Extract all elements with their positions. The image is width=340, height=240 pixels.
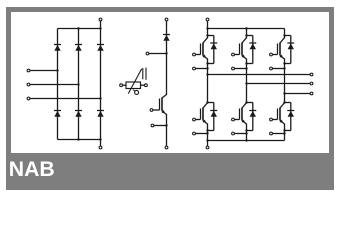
terminal emitter aux of Q3B (270, 132, 286, 135)
wire inverter top rail (208, 27, 285, 29)
terminal DC+ of rectifier (99, 18, 102, 28)
wire phase W leg lower segment (284, 124, 286, 141)
wire phase U leg middle segment (207, 59, 209, 104)
wire diode branch of diode D1T (phase U top freewheel) (206, 34, 214, 64)
wire phase V leg middle segment (246, 59, 248, 104)
terminal chopper collector aux (146, 52, 168, 55)
transistor Q1B (phase U bottom IGBT) (201, 103, 208, 124)
wire diode branch of diode D3B (phase W bottom freewheel) (283, 101, 291, 131)
wire phase V leg lower segment (246, 124, 248, 141)
terminal gate of Q1T (193, 53, 201, 56)
diode D7 (chopper freewheel diode) (163, 35, 170, 41)
diode D3B (phase W bottom freewheel) (287, 111, 294, 117)
diode D1 (rectifier top, leg 1) (54, 45, 61, 51)
diode D2B (phase V bottom freewheel) (249, 111, 256, 117)
terminal thermistor left (120, 84, 126, 87)
terminal AC input L1 (27, 69, 59, 72)
terminal inverter P (+) (206, 18, 209, 30)
diode D3 (rectifier top, leg 3) (97, 45, 104, 51)
terminal emitter aux of Q1B (193, 132, 209, 135)
wire phase U leg upper segment (207, 29, 209, 39)
terminal DC- of rectifier (99, 140, 102, 149)
terminal emitter aux of Q3T (270, 67, 286, 70)
terminal AC input L3 (27, 97, 102, 100)
terminal chopper emitter aux (151, 124, 168, 127)
transistor Q3B (phase W bottom IGBT) (278, 103, 285, 124)
wire rectifier bottom rail (-) (58, 138, 102, 140)
wire diode branch of diode D2B (phase V bottom freewheel) (245, 101, 253, 131)
terminal emitter aux of Q2T (232, 67, 248, 70)
transistor Q3T (phase W top IGBT) (278, 38, 285, 59)
wire rectifier leg 3 (100, 29, 102, 140)
terminal phase output V (245, 82, 313, 85)
diode D3T (phase W top freewheel) (287, 43, 294, 49)
terminal AC input L2 (27, 83, 80, 86)
diode D2T (phase V top freewheel) (249, 43, 256, 49)
terminal gate of Q3T (270, 53, 278, 56)
transistor Q7 (brake chopper IGBT) (160, 95, 167, 115)
wire rectifier leg 2 (78, 29, 80, 140)
wire phase U leg lower segment (207, 124, 209, 141)
terminal emitter aux of Q1T (193, 67, 209, 70)
terminal gate of Q3B (270, 118, 278, 121)
terminal phase output U (206, 73, 313, 76)
diode D6 (rectifier bottom, leg 3) (97, 111, 104, 117)
terminal gate of Q2B (232, 118, 240, 121)
wire rectifier leg 1 (57, 29, 59, 140)
terminal phase output W (283, 92, 313, 95)
wire phase W leg upper segment (284, 29, 286, 39)
wire chopper main line upper (166, 28, 168, 95)
diode D1T (phase U top freewheel) (210, 43, 217, 49)
terminal chopper bottom (-) (165, 146, 168, 149)
diode D4 (rectifier bottom, leg 1) (54, 111, 61, 117)
wire diode branch of diode D1B (phase U bottom freewheel) (206, 101, 214, 131)
transistor Q1T (phase U top IGBT) (201, 38, 208, 59)
terminal inverter N (-) (206, 139, 209, 149)
thermistor RT (temperature sensor) (126, 68, 146, 95)
wire diode branch of diode D2T (phase V top freewheel) (245, 34, 253, 64)
diode D5 (rectifier bottom, leg 2) (75, 111, 82, 117)
terminal gate of Q2T (232, 53, 240, 56)
diode D1B (phase U bottom freewheel) (210, 111, 217, 117)
terminal thermistor right (141, 84, 148, 87)
terminal emitter aux of Q2B (232, 132, 248, 135)
terminal chopper gate (150, 109, 159, 112)
wire diode branch of diode D3T (phase W top freewheel) (283, 34, 291, 64)
wire phase W leg middle segment (284, 59, 286, 104)
wire inverter bottom rail (208, 139, 285, 141)
transistor Q2T (phase V top IGBT) (240, 38, 247, 59)
terminal chopper top (+) (165, 18, 168, 28)
transistor Q2B (phase V bottom IGBT) (240, 103, 247, 124)
wire phase V leg upper segment (246, 29, 248, 39)
wire rectifier top rail (+) (58, 27, 102, 29)
terminal gate of Q1B (193, 118, 201, 121)
diode D2 (rectifier top, leg 2) (75, 45, 82, 51)
wire chopper main line lower (166, 114, 168, 146)
